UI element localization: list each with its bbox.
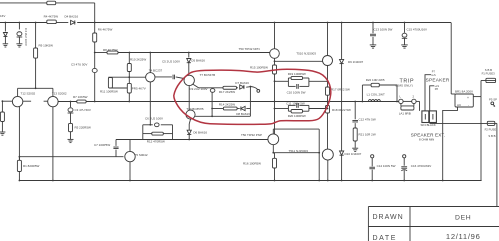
svg-text:R21 10R 2W: R21 10R 2W (359, 133, 376, 137)
svg-text:D5 BA616: D5 BA616 (191, 58, 205, 62)
wire feedback rail (19, 156, 123, 158)
wire T510 collector (327, 23, 329, 56)
svg-text:R14 2K25W: R14 2K25W (219, 102, 235, 106)
svg-text:16V: 16V (0, 14, 5, 18)
svg-text:R10 2K25W: R10 2K25W (130, 58, 146, 62)
svg-text:DEH: DEH (455, 214, 471, 221)
wire T13 base stub (44, 100, 48, 102)
wire T511 collector link (327, 113, 329, 149)
ground R5 (68, 138, 74, 140)
svg-text:D7 BA616: D7 BA616 (235, 81, 249, 85)
capacitor C16 4700U63V (403, 155, 406, 158)
wire second rail (0, 22, 47, 24)
wire R10 branch (128, 53, 130, 64)
svg-text:R15 100R5W: R15 100R5W (250, 66, 268, 70)
diode D4 BA216 (71, 20, 75, 24)
wire D5 branch (188, 53, 190, 58)
svg-text:R9 10K5W: R9 10K5W (39, 43, 54, 47)
capacitor C6 2U2 100V block (143, 124, 153, 126)
capacitor C9 2U2 100V (210, 89, 215, 93)
svg-text:12/11/96: 12/11/96 (446, 232, 481, 241)
svg-text:R16 100R5W: R16 100R5W (243, 162, 261, 166)
wire speaker leads (425, 75, 431, 111)
transistor T511 NJ15003 (322, 149, 333, 160)
svg-text:C7 100P5W: C7 100P5W (94, 143, 110, 147)
diode D10 1N4007 (340, 151, 344, 155)
capacitor C12 47N 5W (352, 119, 358, 121)
svg-text:R11 100R5W: R11 100R5W (100, 89, 118, 93)
svg-text:R22 10R 2W5: R22 10R 2W5 (366, 78, 385, 82)
lamp LA1 8RB (400, 104, 402, 106)
inductor L1 COIL 2WT (368, 100, 371, 102)
svg-text:T12 S2002: T12 S2002 (21, 92, 36, 96)
fuse F2 FUSE (487, 121, 495, 125)
transistor T13 S0002 (48, 96, 58, 106)
resistor R21 10R 2W (353, 128, 357, 141)
ground Zobel (352, 147, 358, 149)
wire lower rail (116, 139, 268, 141)
resistor R18 0R22 5W (326, 106, 330, 114)
wire T13 emitter down (52, 107, 54, 181)
resistor R7 10K5W (77, 100, 86, 103)
svg-text:R6 4K75W: R6 4K75W (98, 27, 113, 31)
svg-text:R19 100R5W: R19 100R5W (288, 72, 306, 76)
svg-text:R1 820R5W: R1 820R5W (23, 164, 40, 168)
svg-text:SPEAKER: SPEAKER (426, 78, 450, 83)
wire T12 emitter down (18, 107, 20, 161)
title block (368, 206, 499, 208)
resistor R2 (47, 1, 56, 4)
wire lower inner row (212, 108, 223, 110)
svg-text:R17 0R22 5W: R17 0R22 5W (331, 88, 350, 92)
svg-text:R20 100R5W: R20 100R5W (288, 114, 306, 118)
capacitor C14 100N 5W (371, 155, 374, 158)
wire right drop (495, 122, 497, 124)
wire T51 vertical (274, 23, 276, 49)
wire lower RC bracket (287, 105, 289, 111)
wire bridge AC down (443, 107, 458, 181)
svg-text:F1 FUSE3: F1 FUSE3 (482, 72, 496, 76)
resistor R11 100R5W (108, 78, 112, 89)
resistor R22 10R 2W5 (362, 84, 371, 86)
wire R9 to pair (35, 58, 37, 88)
capacitor C3 47U 50V (68, 108, 73, 112)
diode D7 BA616 (240, 85, 244, 89)
resistor R6 4K75W (93, 33, 97, 42)
svg-text:T511 NJ15003: T511 NJ15003 (289, 149, 309, 153)
wire T50 collector loop (272, 129, 274, 134)
wire T4 collector (149, 53, 151, 73)
preset PR5 4K7V (128, 77, 130, 83)
svg-text:R7 10K5W: R7 10K5W (73, 95, 88, 99)
capacitor C2 47U 50V (92, 68, 97, 72)
annotation red loop (174, 69, 331, 124)
wire T10 emitter (189, 119, 190, 130)
resistor R3 input (1, 101, 3, 112)
svg-text:R12 470R5W: R12 470R5W (147, 140, 165, 144)
svg-text:D6 BA616: D6 BA616 (193, 131, 207, 135)
ground C13 (370, 44, 377, 46)
svg-text:DRAWN: DRAWN (373, 214, 404, 221)
bridge BR1 8A 200V (455, 94, 473, 107)
wire inner vertical B (249, 87, 251, 117)
wire upper inner row (193, 84, 199, 88)
svg-text:T7 BC547B: T7 BC547B (200, 73, 216, 77)
ground input (0, 131, 5, 133)
svg-text:8 OHM MIN: 8 OHM MIN (419, 138, 434, 142)
svg-text:R5 220R5W: R5 220R5W (75, 126, 92, 130)
svg-text:T50 TIP32 NPN: T50 TIP32 NPN (239, 47, 260, 51)
svg-text:C15 4700U16V: C15 4700U16V (407, 28, 428, 32)
svg-text:R17 2K25W: R17 2K25W (219, 90, 235, 94)
wire top rail +supply (0, 2, 47, 4)
wire T10 emitter row (195, 115, 250, 117)
wire pair bracket (18, 87, 53, 89)
ground C15 (401, 44, 408, 46)
svg-text:C14 100N 5W: C14 100N 5W (377, 164, 396, 168)
svg-text:-: - (468, 103, 469, 107)
wire C13 branch (372, 23, 374, 34)
capacitor C10 100N 5W block (288, 85, 295, 87)
wire C15 branch (404, 23, 406, 33)
resistor R17 2K25W (223, 86, 237, 89)
resistor R20 100R5W block (288, 110, 291, 112)
svg-text:C3 47U 50V: C3 47U 50V (71, 62, 87, 66)
wire T12 base stub (23, 100, 31, 102)
wire input (2, 100, 12, 102)
capacitor C13 100N 5W (370, 33, 376, 35)
svg-text:C10 100N 5W: C10 100N 5W (287, 91, 306, 95)
transistor T510 NJ15003 (323, 56, 333, 66)
wire LED branch (4, 23, 6, 32)
resistor R19 100R5W block (288, 77, 291, 79)
capacitor C7 100P5W (115, 140, 117, 146)
wire Zobel branch (354, 102, 356, 120)
svg-text:+: + (467, 96, 469, 100)
wire inner vertical A (211, 92, 213, 116)
test point hook (250, 87, 257, 90)
terminal L (399, 99, 403, 103)
resistor R4 4K75W (47, 20, 57, 24)
transistor T10 BC557B (186, 110, 195, 119)
resistor R1 820R5W (18, 157, 20, 161)
svg-text:C4 2k2 100V: C4 2k2 100V (24, 28, 28, 47)
wire upper RC stub (275, 80, 289, 82)
svg-text:R8 4K75W: R8 4K75W (103, 48, 118, 52)
wire lower RC stub (275, 108, 289, 110)
svg-text:C13 100N 5W: C13 100N 5W (374, 28, 393, 32)
wire T4 base node (108, 76, 145, 78)
wire supply to bridge (450, 23, 452, 95)
svg-text:S B B: S B B (488, 134, 495, 138)
wire mid rail (58, 101, 77, 103)
wire R9 branch (35, 23, 37, 49)
fuse F1 FUSE3 (486, 78, 496, 82)
svg-text:C6 2U2 100V: C6 2U2 100V (145, 116, 163, 120)
LED D1 (3, 33, 7, 37)
wire upper RC bracket (287, 78, 289, 86)
wire speaker return (430, 122, 488, 124)
resistor R12 470R5W (152, 132, 164, 135)
terminal 2 (412, 99, 416, 103)
wire R22 bracket (361, 85, 363, 102)
resistor R8 4K75W (107, 51, 118, 54)
wire diode string (341, 23, 343, 60)
transistor T4 BC237 (146, 73, 155, 82)
transistor T12 S0002 (12, 96, 22, 106)
svg-text:C3 47U 50V: C3 47U 50V (75, 108, 91, 112)
svg-text:C12 47N 5W: C12 47N 5W (359, 118, 376, 122)
capacitor C4 2k2 100V (17, 32, 22, 36)
svg-text:P5 SP: P5 SP (489, 97, 497, 101)
svg-text:C11 100N 5W: C11 100N 5W (286, 101, 305, 105)
wire T511 emitter (327, 160, 329, 180)
diode D8 BA616 (241, 106, 245, 110)
wire T5 collector (129, 140, 131, 152)
capacitor C11 100N 5W block (288, 104, 295, 106)
diode D9 1N4007 (340, 59, 344, 63)
svg-text:R4 4K75W: R4 4K75W (44, 14, 59, 18)
wire bridge to F1 (473, 96, 481, 98)
wire vertical x94.7 (94, 3, 96, 33)
terminal P5 (491, 102, 494, 105)
wire T510 base (275, 60, 323, 62)
transistor T7 BC547B (184, 75, 194, 85)
svg-text:DATE: DATE (373, 235, 398, 241)
ground C4 (16, 43, 22, 45)
transistor T51 TIP32 NPN (270, 49, 280, 59)
wire driver rail (95, 52, 107, 54)
svg-text:C5 2U2 100V: C5 2U2 100V (162, 59, 180, 63)
resistor R17e 0R22 5W (326, 87, 330, 95)
wire block brackets (142, 125, 144, 140)
svg-text:+LS: +LS (431, 74, 436, 77)
capacitor C5 2U2 100V (155, 76, 172, 78)
resistor R10 2K25W (127, 64, 131, 72)
transistor T5 S0042 (125, 151, 135, 161)
resistor R15 100R5W (273, 65, 277, 74)
ground LED (3, 43, 8, 45)
svg-text:F2 FUSE: F2 FUSE (485, 128, 497, 132)
wire T51 emitter chain (274, 58, 276, 65)
wire C3 R5 branch (70, 101, 72, 103)
wire T510 emitter (327, 66, 329, 88)
svg-text:D4 BA216: D4 BA216 (65, 14, 79, 18)
svg-text:T4 BC237: T4 BC237 (149, 68, 163, 72)
svg-text:C9 2U2 100V: C9 2U2 100V (190, 87, 208, 91)
svg-text:PR5 4K7V: PR5 4K7V (132, 86, 146, 90)
svg-text:(EMS ONLY): (EMS ONLY) (396, 84, 413, 88)
svg-text:D8 BA616: D8 BA616 (236, 112, 250, 116)
svg-text:D10 1N4007: D10 1N4007 (345, 152, 362, 156)
svg-text:L1 COIL 2WT: L1 COIL 2WT (367, 93, 385, 97)
svg-text:D9 1N4007: D9 1N4007 (348, 60, 364, 64)
diode D5 BA616 (187, 59, 191, 63)
svg-text:T5 S0042: T5 S0042 (135, 153, 148, 157)
wire T5 emitter (129, 162, 131, 181)
wire T7-T10 link (188, 86, 190, 111)
transistor T50 TIP32 PNP (268, 134, 279, 145)
svg-text:T13 S2002: T13 S2002 (52, 92, 67, 96)
svg-text:T50 TIP32 PNP: T50 TIP32 PNP (241, 133, 262, 137)
wire bottom rail (19, 180, 481, 182)
resistor R9 10K5W (34, 48, 38, 58)
svg-text:T510 NJ15003: T510 NJ15003 (296, 52, 316, 56)
resistor R5 220R5W (69, 123, 73, 131)
wire T4 emitter (149, 82, 151, 125)
diode D6 BA616 (187, 130, 191, 134)
wire terminals (403, 100, 412, 102)
resistor R16 100R5W (274, 153, 276, 159)
svg-text:BR1 8A 200V: BR1 8A 200V (455, 90, 473, 94)
resistor R14 2K25W (223, 107, 237, 110)
wire T50 emitter node (272, 145, 274, 153)
wire C4 branch (18, 23, 20, 30)
capacitor C15 4700U16V (402, 33, 407, 37)
wire F1 drop (480, 97, 482, 181)
svg-text:LA1 8RB: LA1 8RB (399, 111, 411, 115)
connector SK3 BLACK (422, 111, 429, 123)
svg-text:C16 4700U63V: C16 4700U63V (411, 164, 432, 168)
